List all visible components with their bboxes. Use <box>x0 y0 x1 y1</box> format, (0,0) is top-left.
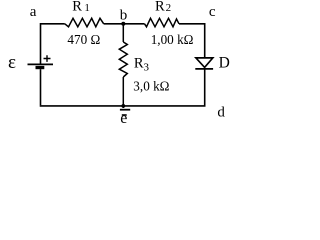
wire b to R3 <box>122 24 124 42</box>
resistor R3 (vertical) <box>119 42 127 77</box>
svg-text:2: 2 <box>166 2 172 14</box>
wire diode to bottom-right corner <box>204 69 206 106</box>
diode D cathode bar <box>195 68 213 70</box>
svg-text:1,00 kΩ: 1,00 kΩ <box>151 32 194 47</box>
wire top-middle segment (R1 to R2 through b) <box>104 23 145 25</box>
bottom junction dot at R3 <box>121 104 125 108</box>
battery plus sign <box>44 55 51 62</box>
wire battery to bottom-left corner <box>40 69 42 105</box>
resistor R2 <box>145 18 180 27</box>
svg-text:3,0 kΩ: 3,0 kΩ <box>133 78 169 93</box>
svg-text:3: 3 <box>144 61 150 73</box>
svg-text:a: a <box>30 4 37 20</box>
svg-text:D: D <box>219 55 230 72</box>
wire top-right segment (R2 to c corner) <box>179 24 205 58</box>
svg-text:470 Ω: 470 Ω <box>67 32 100 47</box>
svg-text:R: R <box>72 0 82 14</box>
svg-text:b: b <box>120 8 128 24</box>
ground bar 2 <box>122 114 127 116</box>
wire top-left segment (a corner to R1) <box>41 24 65 64</box>
battery positive plate (long) <box>28 63 54 65</box>
resistor R1 <box>65 18 104 27</box>
svg-text:R: R <box>134 56 144 72</box>
ground bar 1 <box>120 109 130 111</box>
wire R3 to bottom node <box>122 77 124 108</box>
svg-text:1: 1 <box>84 2 90 14</box>
svg-text:e: e <box>120 110 127 127</box>
node b junction dot <box>121 22 125 26</box>
svg-text:ε: ε <box>8 52 16 73</box>
wire bottom (left corner to d corner) <box>40 105 206 107</box>
svg-text:c: c <box>209 4 216 20</box>
svg-text:R: R <box>155 0 165 14</box>
diode D triangle (anode) <box>196 58 213 68</box>
battery negative plate (short thick) <box>36 66 45 69</box>
svg-text:d: d <box>217 105 225 121</box>
